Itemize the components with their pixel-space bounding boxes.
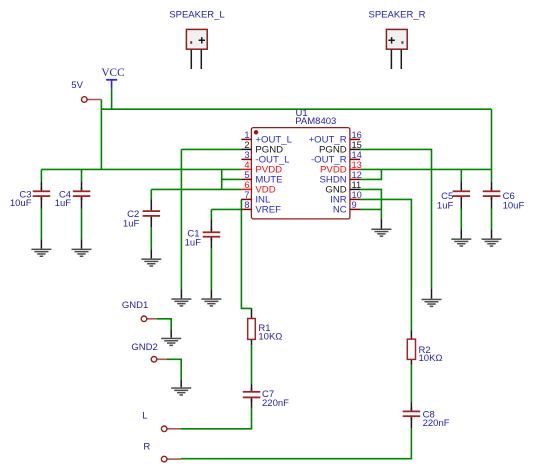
svg-text:NC: NC — [333, 205, 347, 216]
U1 pin 2 — [241, 140, 283, 156]
ground GND1 — [161, 330, 181, 346]
svg-text:VCC: VCC — [101, 67, 124, 79]
svg-text:1uF: 1uF — [185, 238, 202, 249]
wire GND2 green — [167, 359, 181, 379]
U1 pin 14 — [311, 150, 362, 166]
wire VCC bus top — [101, 108, 491, 110]
wire C4 top — [81, 169, 83, 181]
svg-text:L: L — [142, 410, 147, 421]
wire C4 bottom — [81, 209, 83, 239]
wire PVDD row13 right — [360, 168, 492, 170]
svg-text:10uF: 10uF — [503, 201, 525, 212]
svg-text:PAM8403: PAM8403 — [295, 116, 336, 127]
svg-text:VREF: VREF — [255, 205, 281, 216]
svg-text:5: 5 — [244, 170, 249, 180]
svg-text:8: 8 — [244, 200, 249, 210]
wire C5 top drop — [460, 169, 462, 181]
capacitor C2 — [123, 199, 160, 229]
svg-text:220nF: 220nF — [423, 418, 450, 429]
connector R — [143, 441, 181, 462]
ground C1 — [201, 289, 221, 307]
connector SPEAKER_R — [368, 10, 425, 69]
svg-text:7: 7 — [244, 190, 249, 200]
U1 pin 8 — [241, 200, 281, 216]
U1 pin 3 — [241, 150, 290, 166]
ground C4 — [72, 239, 92, 257]
wire INR row10 to R2 — [360, 199, 411, 330]
svg-text:R: R — [143, 441, 150, 452]
U1 pin 5 — [241, 170, 282, 186]
capacitor C5 — [437, 181, 470, 211]
op-amp U1 PAM8403 body — [251, 108, 350, 219]
wire C3 top — [40, 169, 42, 181]
U1 pin 4 — [241, 160, 282, 176]
connector 5V — [71, 80, 101, 102]
wire PVDD row4 line left — [41, 168, 241, 170]
ground C2 — [141, 249, 161, 266]
U1 pin 16 — [309, 130, 362, 146]
ground PGND right — [422, 289, 442, 308]
resistor R1 — [248, 308, 283, 345]
svg-text:1: 1 — [244, 130, 249, 140]
svg-text:GND2: GND2 — [131, 342, 157, 353]
wire PGND row15 right — [360, 149, 432, 288]
wire C2 top drop — [150, 189, 152, 199]
svg-text:10KΩ: 10KΩ — [419, 353, 443, 364]
svg-text:11: 11 — [352, 180, 362, 190]
U1 pin 10 — [330, 190, 362, 206]
wire C6 top drop — [491, 169, 493, 181]
U1 pin 13 — [320, 160, 362, 176]
wire VDD row6 — [151, 188, 241, 190]
capacitor C4 — [55, 181, 91, 209]
wire C8 bottom to R input — [181, 428, 411, 458]
connector GND1 — [122, 300, 157, 321]
U1 pin 1 — [241, 130, 292, 146]
svg-text:220nF: 220nF — [262, 398, 289, 409]
wire PGND row2 — [181, 148, 241, 150]
U1 pin 11 — [325, 180, 361, 196]
wire C7 bottom to L input — [181, 408, 252, 429]
ground U1 GND — [371, 219, 391, 237]
ground GND2 — [171, 380, 191, 396]
connector SPEAKER_L — [169, 10, 224, 69]
svg-text:GND1: GND1 — [122, 300, 148, 311]
svg-text:1uF: 1uF — [437, 201, 454, 212]
svg-text:12: 12 — [352, 170, 362, 180]
wire PGND left vertical — [180, 149, 182, 289]
wire C2 bottom — [150, 227, 152, 249]
wire MUTE row5 — [222, 178, 242, 180]
svg-text:SPEAKER_L: SPEAKER_L — [169, 10, 224, 21]
wire R2 bottom to C8 — [410, 365, 412, 403]
capacitor C7 — [243, 384, 289, 409]
svg-text:16: 16 — [352, 130, 362, 140]
svg-text:4: 4 — [244, 160, 249, 170]
wire C5 bottom — [460, 209, 462, 229]
svg-text:10uF: 10uF — [10, 198, 32, 209]
ground C3 — [31, 239, 51, 257]
wire SHDN row12 — [360, 169, 381, 179]
svg-text:13: 13 — [352, 160, 362, 170]
capacitor C1 — [185, 220, 221, 249]
U1 pin 15 — [319, 140, 362, 156]
svg-text:2: 2 — [244, 140, 249, 150]
svg-text:SPEAKER_R: SPEAKER_R — [368, 10, 425, 21]
ground C5 — [451, 229, 471, 247]
wire INL vertical from pin7 — [241, 199, 251, 308]
capacitor C6 — [483, 181, 525, 211]
wire VREF row8 — [211, 208, 241, 210]
wire mute-pvdd vertical — [221, 169, 223, 189]
wire C6 bottom — [491, 209, 493, 229]
U1 pin 6 — [241, 180, 275, 196]
svg-text:10KΩ: 10KΩ — [258, 332, 282, 343]
wire R1 bottom to C7 — [251, 345, 253, 384]
ground PGND left — [171, 289, 191, 307]
svg-text:1uF: 1uF — [123, 219, 140, 230]
svg-text:15: 15 — [352, 140, 362, 150]
wire GND1 green — [157, 319, 172, 330]
U1 pin 12 — [320, 170, 362, 186]
ground C6 — [482, 229, 502, 247]
wire C1 bottom to ground — [210, 248, 212, 289]
wire 5V vertical — [100, 100, 102, 170]
svg-text:6: 6 — [244, 180, 249, 190]
svg-text:9: 9 — [352, 200, 357, 210]
connector L — [142, 410, 181, 431]
wire NC row9 — [360, 208, 381, 210]
U1 pin 9 — [333, 200, 360, 216]
connector GND2 — [131, 342, 167, 362]
U1 pin 7 — [241, 190, 271, 206]
wire VCC stem green — [111, 89, 113, 110]
svg-text:5V: 5V — [71, 80, 83, 91]
wire C3 bottom — [40, 209, 42, 239]
wire bus right drop to PVDD line — [491, 109, 493, 169]
capacitor C8 — [403, 403, 450, 429]
power port VCC — [101, 67, 124, 89]
wire GND row11 — [360, 189, 381, 219]
capacitor C3 — [10, 181, 50, 209]
svg-text:14: 14 — [352, 150, 362, 160]
svg-text:1uF: 1uF — [55, 198, 72, 209]
wire VREF to C1 — [210, 209, 212, 219]
svg-text:10: 10 — [352, 190, 362, 200]
resistor R2 — [407, 330, 442, 364]
svg-text:3: 3 — [244, 150, 249, 160]
